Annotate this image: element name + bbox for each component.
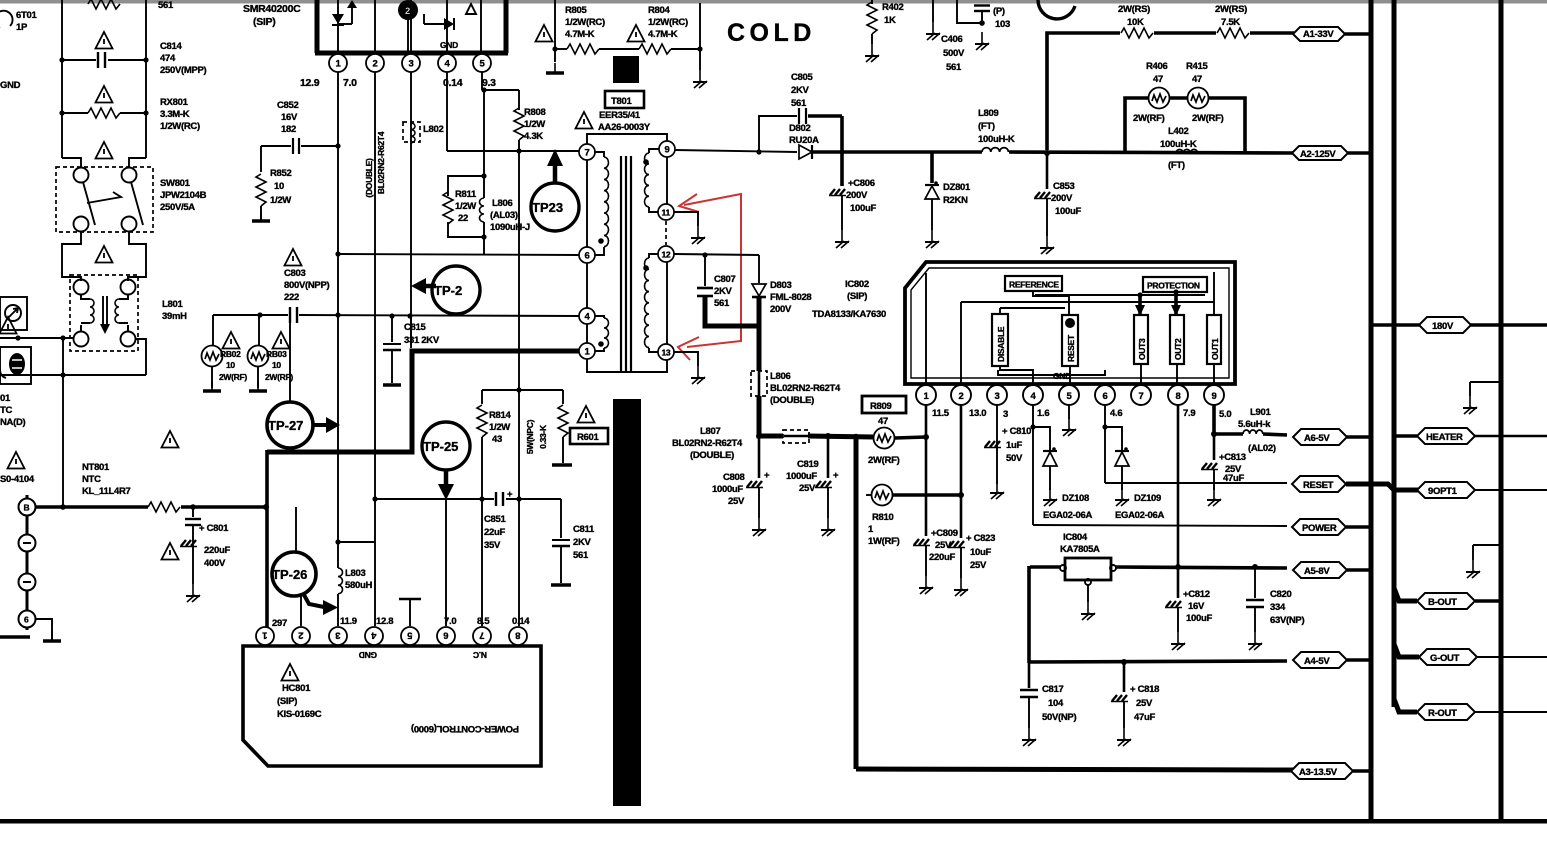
svg-text:2: 2	[405, 6, 410, 17]
warning near connector	[8, 452, 25, 469]
label A3-13.5V	[1291, 763, 1371, 779]
svg-text:EGA02-06A: EGA02-06A	[1043, 510, 1092, 521]
wire IC801 pin2 vertical to HC801 pin4	[372, 72, 377, 626]
internal out drops	[1141, 364, 1214, 384]
HC801 pin 4	[365, 627, 383, 645]
svg-text:+ C810: + C810	[1002, 426, 1031, 437]
svg-text:1/2W: 1/2W	[489, 422, 510, 433]
switch SW801	[56, 142, 207, 232]
svg-text:C851: C851	[484, 514, 507, 525]
svg-text:5W(NPC): 5W(NPC)	[525, 419, 535, 454]
HC801 body	[243, 646, 541, 766]
svg-text:POWER: POWER	[1302, 523, 1337, 534]
test point TP-24	[411, 266, 480, 314]
svg-text:4.6: 4.6	[1110, 408, 1122, 419]
svg-text:C853: C853	[1053, 181, 1075, 192]
lamp R415	[1186, 61, 1224, 124]
IC801 pin 5	[473, 54, 491, 72]
svg-text:OUT3: OUT3	[1137, 338, 1147, 360]
svg-text:2KV: 2KV	[573, 537, 592, 548]
resistor R805	[536, 5, 640, 54]
inductor L803	[338, 568, 372, 594]
lamp network frame	[1125, 98, 1245, 152]
thick rail A5-8V	[1030, 564, 1287, 570]
svg-text:S0-4104: S0-4104	[0, 474, 35, 485]
svg-text:C815: C815	[404, 322, 427, 333]
svg-text:1uF: 1uF	[1006, 440, 1022, 451]
ground C813	[1207, 488, 1221, 506]
wire branch down x63	[62, 338, 64, 507]
svg-text:400V: 400V	[204, 558, 226, 569]
svg-text:10uF: 10uF	[970, 547, 991, 558]
svg-text:A3-13.5V: A3-13.5V	[1299, 767, 1338, 778]
svg-text:L806: L806	[770, 371, 790, 382]
ground C817	[1022, 728, 1036, 746]
svg-text:DISABLE: DISABLE	[996, 326, 1006, 362]
T801 pin 12	[658, 246, 674, 262]
internal wire reference to reset	[1000, 291, 1069, 316]
svg-text:200V: 200V	[846, 190, 868, 201]
svg-text:R811: R811	[455, 189, 477, 200]
svg-text:250V/5A: 250V/5A	[160, 202, 195, 213]
svg-text:TDA8133/KA7630: TDA8133/KA7630	[812, 309, 886, 320]
svg-text:R2KN: R2KN	[943, 195, 968, 206]
wire IC802 pin2 down	[960, 405, 963, 538]
svg-text:DZ109: DZ109	[1134, 493, 1161, 504]
text NTC part label	[0, 393, 26, 428]
T801 pin 4	[579, 308, 595, 324]
capacitor C814	[59, 32, 206, 76]
T801 core	[621, 156, 631, 372]
wire IC801 pin5 elbow	[481, 72, 519, 93]
thick wire R810 to pin2 line	[893, 492, 964, 498]
svg-text:(FT): (FT)	[978, 121, 995, 132]
svg-text:500V: 500V	[943, 48, 965, 59]
ground T801 pin13	[674, 352, 705, 384]
ground T801 pin11	[674, 212, 705, 244]
wire stub x412 up	[410, 316, 412, 348]
svg-text:800V(NPP): 800V(NPP)	[284, 280, 329, 291]
svg-text:R-OUT: R-OUT	[1428, 708, 1457, 719]
svg-text:REFERENCE: REFERENCE	[1009, 280, 1059, 290]
T801 pin 1	[579, 343, 595, 359]
label B-OUT	[1394, 588, 1501, 609]
svg-text:2: 2	[373, 59, 378, 70]
svg-text:561: 561	[573, 550, 589, 561]
bus vertical x1393	[1392, 0, 1397, 707]
wire branch x484 down	[481, 90, 486, 179]
ground DZ801	[925, 230, 939, 248]
zener DZ109	[1105, 427, 1164, 521]
svg-text:13.0: 13.0	[969, 408, 986, 419]
svg-text:C803: C803	[284, 268, 306, 279]
OUT3 box	[1134, 315, 1148, 364]
svg-text:C808: C808	[723, 472, 745, 483]
svg-text:25V: 25V	[970, 560, 987, 571]
svg-text:1K: 1K	[884, 15, 896, 26]
svg-text:334: 334	[1270, 602, 1286, 613]
resistor top partial	[88, 0, 174, 11]
top scan border	[0, 0, 1547, 4]
svg-text:A4-5V: A4-5V	[1304, 656, 1330, 667]
connector pin minus2	[19, 574, 36, 591]
resistor R402	[867, 0, 904, 44]
warning T801	[576, 112, 593, 129]
svg-text:KA7805A: KA7805A	[1060, 544, 1100, 555]
svg-text:8: 8	[516, 630, 521, 641]
thick corner A1 feed	[1047, 33, 1120, 150]
capacitor C812	[1165, 567, 1212, 632]
resistor R808	[514, 90, 546, 151]
bus vertical x1501	[1499, 0, 1504, 821]
wire A2 label to bus	[1348, 151, 1370, 155]
svg-text:1000uF: 1000uF	[786, 471, 817, 482]
svg-text:R804: R804	[648, 5, 671, 16]
svg-text:(FT): (FT)	[1168, 160, 1185, 171]
svg-text:6T01: 6T01	[16, 10, 37, 21]
svg-text:01: 01	[0, 393, 11, 404]
svg-text:331 2KV: 331 2KV	[404, 335, 440, 346]
svg-text:RU20A: RU20A	[789, 135, 819, 146]
OUT1 box	[1207, 315, 1221, 364]
capacitor C813	[1201, 434, 1246, 490]
node 6T01 label	[0, 10, 37, 33]
svg-text:(SIP): (SIP)	[847, 291, 867, 302]
inductor L402	[1160, 126, 1198, 171]
svg-text:DZ801: DZ801	[943, 182, 971, 193]
wire stub bottom left	[0, 635, 30, 639]
svg-text:GND: GND	[1053, 371, 1071, 381]
svg-text:KIS-0169C: KIS-0169C	[277, 709, 322, 720]
wire IC802 pin8 down	[1177, 405, 1180, 567]
T801 pin 7	[579, 144, 595, 160]
svg-text:7: 7	[1139, 391, 1144, 402]
ground DZ108	[1043, 488, 1057, 506]
svg-text:3: 3	[1003, 409, 1008, 420]
svg-text:A2-125V: A2-125V	[1300, 149, 1336, 160]
svg-text:9OPT1: 9OPT1	[1428, 486, 1458, 497]
svg-text:3: 3	[409, 59, 414, 70]
HC801 pin 8	[509, 627, 527, 645]
svg-text:B: B	[24, 503, 30, 513]
IC801 pin 3	[402, 54, 420, 72]
svg-text:GND: GND	[359, 650, 377, 660]
internal wire protection drops	[1035, 289, 1205, 316]
lamp RB03	[248, 315, 294, 388]
zener DZ801	[925, 152, 971, 230]
svg-text:47: 47	[878, 416, 888, 427]
wire pin6 to ground	[36, 619, 52, 640]
svg-text:2W(RS): 2W(RS)	[1118, 4, 1150, 15]
svg-text:R852: R852	[270, 168, 292, 179]
svg-text:OUT2: OUT2	[1173, 338, 1183, 360]
IC802 pin 1	[916, 385, 936, 405]
svg-text:HC801: HC801	[282, 683, 311, 694]
svg-text:IC804: IC804	[1063, 532, 1088, 543]
label 180V	[1419, 317, 1471, 333]
wire L801 out left	[0, 335, 74, 340]
lamp R406	[1133, 61, 1170, 124]
svg-text:10: 10	[226, 360, 235, 370]
svg-text:10: 10	[272, 360, 281, 370]
svg-text:0.14: 0.14	[512, 616, 530, 627]
label G-OUT	[1394, 644, 1547, 665]
ground R852	[252, 211, 270, 221]
svg-text:25V: 25V	[1136, 698, 1153, 709]
svg-text:RESET: RESET	[1303, 480, 1334, 491]
IC802 pin 3	[987, 385, 1007, 405]
svg-text:5.0: 5.0	[1219, 409, 1231, 420]
wire RESET row	[1105, 482, 1287, 484]
thick rail A4-5V	[1028, 659, 1287, 665]
svg-text:10K: 10K	[1127, 17, 1144, 28]
svg-text:47uF: 47uF	[1223, 473, 1244, 484]
svg-text:6: 6	[24, 615, 29, 625]
inductor L806 dashed	[751, 371, 841, 406]
svg-text:(SIP): (SIP)	[253, 16, 275, 28]
thick wire down to HC801 pin1	[265, 450, 269, 627]
svg-text:6: 6	[444, 630, 449, 641]
svg-text:1P: 1P	[16, 22, 28, 33]
capacitor C406	[933, 0, 965, 73]
connector pin B	[19, 495, 36, 630]
svg-text:D803: D803	[770, 280, 792, 291]
svg-text:1W(RF): 1W(RF)	[868, 536, 900, 547]
T801 secondary winding 9-11	[643, 149, 659, 212]
ground C406	[926, 22, 940, 40]
svg-text:TP-2: TP-2	[434, 283, 462, 298]
wire POWER row	[1033, 525, 1287, 526]
svg-text:39mH: 39mH	[162, 311, 187, 322]
thick link rails left	[1027, 566, 1031, 663]
T801 outline	[587, 134, 667, 372]
ground mid right	[1466, 545, 1501, 578]
capacitor C803	[213, 249, 579, 323]
ground C812	[1171, 632, 1185, 650]
IC802 body	[905, 262, 1235, 384]
T801 pin 6	[579, 247, 595, 263]
wire y390 row	[482, 387, 563, 392]
svg-text:561: 561	[158, 0, 174, 11]
resistor R852	[256, 146, 292, 220]
svg-text:561: 561	[946, 62, 962, 73]
wire HC801 pin8 up	[518, 390, 520, 626]
svg-text:+: +	[764, 470, 770, 481]
ground DZ109	[1115, 488, 1129, 506]
ground P103	[975, 32, 989, 50]
svg-text:2KV: 2KV	[714, 286, 733, 297]
wire branch 542 to pin2 line	[338, 541, 375, 543]
wire IC802 pin9 down + L901	[1211, 405, 1287, 454]
IC801 internal diode gnd	[424, 0, 481, 51]
ground top right	[1463, 382, 1501, 414]
svg-text:A5-8V: A5-8V	[1304, 566, 1330, 577]
wire pin12 row	[674, 252, 759, 257]
svg-text:12.9: 12.9	[300, 77, 320, 89]
svg-text:(DOUBLE): (DOUBLE)	[364, 158, 374, 198]
label A2-125V	[1292, 146, 1348, 160]
svg-text:104: 104	[1048, 698, 1064, 709]
svg-text:L402: L402	[1168, 126, 1188, 137]
svg-text:GND: GND	[0, 80, 21, 91]
capacitor C811	[551, 499, 595, 585]
ground C808	[752, 518, 766, 536]
IC802 pin voltages	[932, 408, 1231, 420]
IC801 internal node 2 disc	[375, 0, 418, 51]
svg-text:DZ108: DZ108	[1062, 493, 1089, 504]
svg-text:(P): (P)	[993, 6, 1005, 17]
wire left rail upper	[61, 0, 63, 158]
svg-text:2KV: 2KV	[791, 85, 810, 96]
thick bus x856 down	[854, 437, 859, 769]
svg-text:C811: C811	[573, 524, 595, 535]
T801 secondary winding 12-13	[643, 254, 658, 352]
ground C809	[919, 576, 933, 594]
wire IC802 pin4 down	[1030, 405, 1035, 525]
label A4-5V	[1293, 652, 1371, 668]
svg-text:C805: C805	[791, 72, 814, 83]
red annotation arrows pins 11,13	[678, 194, 741, 360]
connector pin minus1	[19, 535, 36, 552]
wire IC802 pin1 down	[925, 405, 928, 536]
ground C810	[990, 481, 1004, 499]
svg-text:4.7M-K: 4.7M-K	[648, 29, 678, 40]
svg-text:12.8: 12.8	[376, 616, 393, 627]
HC801 pin 6	[437, 627, 455, 645]
svg-text:22: 22	[458, 213, 468, 224]
svg-text:L802: L802	[423, 124, 443, 135]
svg-text:22uF: 22uF	[484, 527, 505, 538]
capacitor C806	[829, 116, 876, 230]
label R-OUT	[1394, 699, 1547, 720]
IC801 body	[315, 0, 508, 53]
svg-text:RX801: RX801	[160, 97, 189, 108]
svg-text:5.6uH-k: 5.6uH-k	[1238, 419, 1271, 430]
svg-text:100uF: 100uF	[1055, 206, 1081, 217]
svg-text:BL02RN2-R62T4: BL02RN2-R62T4	[672, 438, 743, 449]
bottom sheet border	[0, 819, 1547, 824]
IC801 internal diode pin1	[332, 0, 357, 51]
capacitor C819	[786, 433, 839, 518]
svg-text:25V: 25V	[728, 496, 745, 507]
thermistor NT801	[36, 431, 269, 512]
thick wire T801 pin1 left	[267, 351, 579, 452]
T801 pin 11	[658, 204, 674, 220]
svg-text:100uH-K: 100uH-K	[1160, 139, 1197, 150]
wire pin9 to D802	[675, 149, 797, 154]
svg-text:GND: GND	[440, 40, 458, 50]
svg-text:13: 13	[662, 348, 671, 358]
svg-text:C820: C820	[1270, 589, 1292, 600]
svg-text:580uH: 580uH	[345, 580, 372, 591]
resistor R811	[443, 176, 484, 237]
svg-text:1.6: 1.6	[1037, 408, 1049, 419]
ground C820	[1248, 632, 1262, 650]
wire HC801 pin2 up to TP26	[300, 596, 302, 626]
diode D803	[752, 255, 811, 371]
svg-text:1090uH-J: 1090uH-J	[490, 222, 530, 233]
wire pin4 down and row to T801 pin7	[447, 72, 579, 154]
DISABLE box	[992, 314, 1008, 366]
svg-text:L809: L809	[978, 108, 998, 119]
capacitor P 103	[957, 0, 1010, 30]
svg-text:R808: R808	[524, 107, 546, 118]
inductor L806 AL03	[480, 176, 530, 255]
svg-text:200V: 200V	[1051, 193, 1073, 204]
capacitor C851	[484, 489, 513, 551]
ground C818	[1117, 728, 1131, 746]
svg-text:L806: L806	[492, 198, 512, 209]
warning below switch	[96, 246, 113, 263]
svg-text:C817: C817	[1042, 684, 1064, 695]
svg-text:222: 222	[284, 292, 299, 303]
IC802 pin 6	[1095, 385, 1115, 405]
svg-text:SMR40200C: SMR40200C	[243, 3, 301, 15]
capacitor C823	[948, 533, 995, 578]
svg-text:R809: R809	[870, 401, 892, 412]
svg-text:47uF: 47uF	[1134, 712, 1155, 723]
svg-text:PROTECTION: PROTECTION	[1147, 281, 1200, 291]
resistor R601 0.33 ohm	[525, 390, 572, 465]
T801 pin 9	[659, 141, 675, 157]
svg-text:1/2W: 1/2W	[524, 119, 545, 130]
IC801 pin 1	[329, 54, 347, 72]
svg-text:N.C: N.C	[473, 650, 487, 660]
svg-text:POWER-CONTROL(6000): POWER-CONTROL(6000)	[411, 723, 519, 734]
svg-text:11: 11	[662, 208, 671, 218]
svg-text:L803: L803	[345, 568, 365, 579]
svg-text:561: 561	[714, 298, 730, 309]
capacitor C817	[1020, 663, 1076, 728]
svg-text:NTC: NTC	[82, 474, 101, 485]
svg-text:NT801: NT801	[82, 462, 110, 473]
test point TP-25	[422, 422, 470, 500]
svg-text:AA26-0003Y: AA26-0003Y	[598, 122, 651, 133]
test point circle top	[1038, 0, 1075, 19]
HC801 labels	[277, 664, 519, 734]
capacitor C853	[1034, 150, 1081, 236]
svg-text:(SIP): (SIP)	[277, 696, 297, 707]
svg-text:47: 47	[1153, 74, 1163, 85]
svg-text:TP-27: TP-27	[268, 418, 303, 433]
svg-text:A6-5V: A6-5V	[1304, 433, 1330, 444]
capacitor C818	[1111, 662, 1159, 728]
svg-text:R406: R406	[1146, 61, 1168, 72]
thick black fill bar center	[613, 399, 641, 806]
label A5-8V	[1293, 562, 1371, 578]
T801 pin 13	[658, 344, 674, 360]
svg-text:1/2W(RC): 1/2W(RC)	[160, 121, 200, 132]
svg-text:L901: L901	[1250, 407, 1271, 418]
svg-text:3: 3	[995, 391, 1000, 402]
thick wire L806 to junction	[759, 396, 783, 436]
svg-text:(AL02): (AL02)	[1248, 443, 1276, 454]
svg-text:1/2W: 1/2W	[270, 195, 291, 206]
wire IC802 pin6 down	[1102, 405, 1107, 483]
capacitor C808	[712, 433, 770, 518]
wire IC802 pin3 down	[996, 405, 998, 484]
svg-text:9: 9	[665, 145, 670, 156]
svg-text:3: 3	[336, 630, 341, 641]
svg-text:182: 182	[281, 124, 296, 135]
svg-text:BL02RN2-R62T4: BL02RN2-R62T4	[770, 383, 841, 394]
svg-text:2W(RF): 2W(RF)	[868, 455, 900, 466]
svg-text:+C812: +C812	[1183, 589, 1210, 600]
svg-text:TP23: TP23	[532, 200, 563, 215]
svg-text:9: 9	[1212, 391, 1217, 402]
ground C801	[186, 584, 200, 602]
ground bar R805	[546, 63, 564, 73]
